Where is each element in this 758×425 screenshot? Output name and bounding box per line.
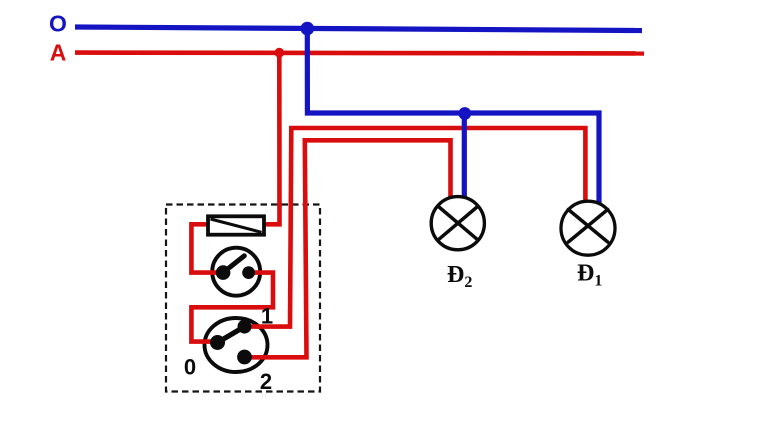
svg-text:A: A xyxy=(50,40,67,66)
junction dot on A line xyxy=(274,48,284,58)
wire: S2 terminal 2 to lamp D2 xyxy=(245,140,451,357)
svg-text:0: 0 xyxy=(184,355,196,380)
wire: blue branch down to lamp D2 xyxy=(462,113,467,199)
wire: switch S1 right terminal to S2 common xyxy=(191,273,273,342)
junction dot on blue branch xyxy=(458,107,471,120)
junction dot on O line xyxy=(301,22,315,36)
lamp D2 circle xyxy=(431,197,484,250)
lamp D1 cross xyxy=(568,210,607,243)
svg-text:2: 2 xyxy=(260,369,272,394)
dashed switch-box enclosure xyxy=(166,205,320,392)
switch S1 body circle xyxy=(212,248,260,296)
fuse F1 xyxy=(208,216,264,234)
svg-text:1: 1 xyxy=(261,304,273,329)
wire: neutral line O (blue bus) xyxy=(75,27,642,31)
switch S2 terminals and lever xyxy=(210,320,252,365)
switch S1 terminals and lever xyxy=(216,256,255,280)
wire: blue drop from O line to lamps xyxy=(307,29,599,204)
switch S2 (two-way) body ellipse xyxy=(205,318,268,372)
wire: phase line A (red bus) xyxy=(75,50,644,55)
wire: S2 terminal 1 to lamp D1 xyxy=(245,128,586,327)
wire: A-line drop to fuse xyxy=(264,53,280,225)
lamp D2 cross xyxy=(439,207,477,239)
wire: fuse to switch S1 left terminal xyxy=(191,224,223,272)
svg-text:O: O xyxy=(49,11,67,37)
lamp D1 circle xyxy=(561,201,615,255)
